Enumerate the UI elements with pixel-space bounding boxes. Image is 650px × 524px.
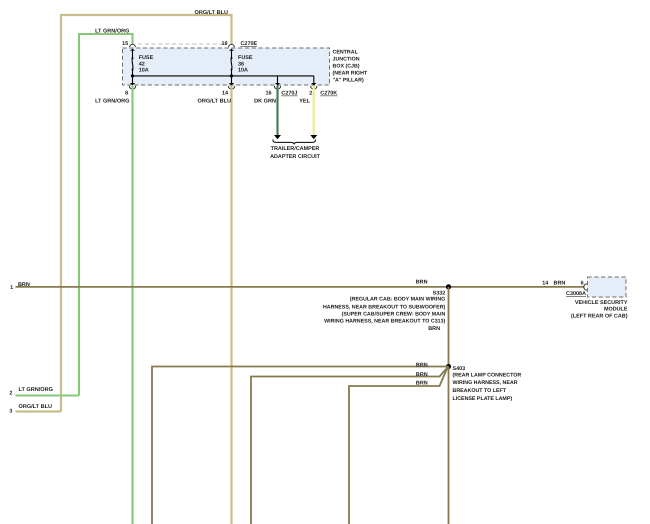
svg-text:15: 15 [122,41,128,47]
connector arc C3008A [584,284,587,290]
svg-text:WIRING HARNESS, NEAR BREAKOUT: WIRING HARNESS, NEAR BREAKOUT TO C313) [324,319,445,325]
svg-text:8: 8 [125,91,128,97]
svg-text:BRN: BRN [416,363,428,369]
connector arc pin 16 [274,86,280,89]
svg-text:(SUPER CAB/SUPER CREW: BODY MA: (SUPER CAB/SUPER CREW: BODY MAIN [342,311,446,317]
node fuse42 bus junction [131,74,134,77]
svg-text:ADAPTER CIRCUIT: ADAPTER CIRCUIT [270,154,321,160]
wire YEL pin 2 down [310,86,317,140]
svg-text:16: 16 [265,91,271,97]
wire BRN branch 3 [349,368,448,524]
svg-text:ORG/LT BLU: ORG/LT BLU [198,97,231,104]
node S332 [446,284,451,289]
svg-text:6: 6 [581,280,584,286]
svg-text:42: 42 [139,61,145,67]
node S403 [446,364,451,369]
bus inside CJB [133,76,317,85]
wire 3 ORG/LT BLU left stub [16,410,62,412]
svg-text:18: 18 [221,41,227,47]
svg-text:BREAKOUT TO LEFT: BREAKOUT TO LEFT [453,388,507,394]
svg-text:10A: 10A [238,68,248,74]
svg-text:BRN: BRN [416,372,428,378]
svg-text:C270K: C270K [320,91,337,97]
svg-text:14: 14 [222,91,228,97]
svg-text:BRN: BRN [416,280,428,286]
svg-text:BRN: BRN [428,326,440,332]
svg-text:WIRING HARNESS, NEAR: WIRING HARNESS, NEAR [453,380,518,386]
svg-text:C3008A: C3008A [566,291,586,297]
svg-text:3: 3 [9,408,12,414]
svg-text:(LEFT REAR OF CAB): (LEFT REAR OF CAB) [571,313,628,319]
svg-text:VEHICLE SECURITY: VEHICLE SECURITY [575,300,628,306]
wire 2 LT GRN/ORG left stub [16,394,80,396]
wire ORG/LT BLU pin 14 down [230,86,232,524]
svg-text:TRAILER/CAMPER: TRAILER/CAMPER [271,146,320,152]
svg-text:LT GRN/ORG: LT GRN/ORG [95,28,129,35]
wire LT GRN/ORG pin 8 down [131,86,133,524]
svg-text:S403: S403 [453,366,466,372]
connector arc pin 8 [129,86,135,89]
svg-text:JUNCTION: JUNCTION [333,57,360,63]
wire LT GRN/ORG top feed [79,34,133,396]
svg-text:BRN: BRN [18,282,30,288]
svg-text:C270E: C270E [241,41,258,47]
connector arc pin 18 [229,44,235,47]
svg-text:1: 1 [10,285,13,291]
fuse F36 [229,49,234,86]
wire BRN branch 1 [152,367,449,524]
wire BRN S332 to S409 [448,287,450,367]
svg-text:10A: 10A [139,68,149,74]
svg-text:"A" PILLAR): "A" PILLAR) [333,78,364,84]
svg-text:14: 14 [542,280,548,286]
connector arc pin 2 [311,86,317,89]
svg-text:BRN: BRN [416,381,428,387]
wire BRN branch 2 [251,368,448,524]
node fuse36 bus junction [230,74,233,77]
svg-text:(REAR LAMP CONNECTOR: (REAR LAMP CONNECTOR [453,372,522,378]
connector C270E dashed boundary [138,43,226,45]
wire ORG/LT BLU top feed [61,15,232,412]
svg-text:ORG/LT BLU: ORG/LT BLU [195,9,228,16]
central junction box CJB [123,48,330,85]
svg-text:YEL: YEL [299,98,310,104]
svg-text:HARNESS, NEAR BREAKOUT TO SUBW: HARNESS, NEAR BREAKOUT TO SUBWOOFER) [323,305,446,311]
svg-text:C270J: C270J [281,91,297,97]
svg-text:LT GRN/ORG: LT GRN/ORG [19,386,53,393]
svg-text:LICENSE PLATE LAMP): LICENSE PLATE LAMP) [453,396,513,402]
svg-text:36: 36 [238,61,244,67]
svg-text:2: 2 [9,391,12,397]
svg-text:DK GRN: DK GRN [254,98,276,104]
svg-text:FUSE: FUSE [139,55,154,61]
wire DK GRN pin 16 down [274,86,281,140]
svg-text:CENTRAL: CENTRAL [333,50,359,56]
vehicle security module connector box [588,277,627,297]
wire BRN below S403 [448,367,450,524]
svg-text:FUSE: FUSE [238,55,253,61]
wire BRN main horizontal [16,286,585,288]
svg-text:BOX (CJB): BOX (CJB) [333,64,360,70]
brace trailer/camper [273,140,316,145]
connector arc pin 15 [130,44,136,47]
svg-text:BRN: BRN [554,280,566,286]
svg-text:ORG/LT BLU: ORG/LT BLU [19,403,52,410]
fuse F42 [130,49,135,86]
svg-text:2: 2 [309,91,312,97]
svg-text:LT GRN/ORG: LT GRN/ORG [95,97,129,104]
connector arc pin 14 [228,86,234,89]
svg-text:(REGULAR CAB: BODY MAIN WIRING: (REGULAR CAB: BODY MAIN WIRING [350,297,446,303]
svg-text:MODULE: MODULE [604,307,628,313]
svg-text:(NEAR RIGHT: (NEAR RIGHT [333,71,368,77]
